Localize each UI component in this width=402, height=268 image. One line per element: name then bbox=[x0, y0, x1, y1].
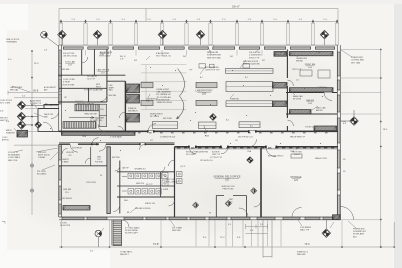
stair lower bbox=[63, 122, 96, 129]
grid marker F bbox=[17, 101, 26, 110]
svg-text:4″ CONC WALK: 4″ CONC WALK bbox=[125, 227, 140, 230]
note jan2 bbox=[95, 162, 103, 164]
room laboratory bbox=[195, 89, 213, 96]
svg-text:LAB OFFICE: LAB OFFICE bbox=[97, 69, 110, 72]
note bollard bbox=[37, 171, 47, 176]
plumbing chase wall bbox=[107, 147, 110, 214]
vest note bbox=[229, 199, 233, 203]
svg-text:WOMEN 113: WOMEN 113 bbox=[135, 169, 146, 171]
dim 3-4 bbox=[22, 96, 25, 98]
note fume hood bbox=[230, 99, 240, 101]
note fin floor bbox=[38, 152, 51, 159]
left edge tick mark bbox=[2, 222, 5, 224]
svg-text:ABOVE: ABOVE bbox=[316, 109, 323, 112]
entry walk line bbox=[25, 109, 38, 132]
svg-text:2′-0: 2′-0 bbox=[296, 80, 299, 82]
leader lines bbox=[12, 46, 356, 234]
right room casework 3 bbox=[290, 110, 312, 114]
dim bc1 bbox=[228, 224, 231, 226]
fixture rects east of wall bbox=[177, 172, 183, 177]
gfo note top1 bbox=[186, 152, 198, 156]
svg-text:CORRIDOR 110: CORRIDOR 110 bbox=[160, 137, 176, 139]
note chase text1 bbox=[109, 85, 115, 92]
svg-text:122: 122 bbox=[230, 201, 233, 203]
note entry bbox=[30, 100, 42, 106]
misc marks bbox=[50, 67, 323, 151]
svg-text:PLANTER: PLANTER bbox=[6, 132, 15, 135]
svg-text:SEE 5/A7: SEE 5/A7 bbox=[172, 229, 182, 232]
lab note left1 bbox=[150, 113, 163, 118]
print room equip 1 bbox=[300, 70, 312, 76]
svg-text:OFFICE: OFFICE bbox=[66, 152, 75, 154]
door tag diamond 3 bbox=[193, 202, 199, 208]
dim small top bbox=[44, 50, 47, 52]
right room casework 1 bbox=[290, 52, 334, 56]
note shower bbox=[163, 189, 169, 191]
dim bc2 bbox=[260, 224, 263, 226]
fume hood hatch 3 bbox=[126, 114, 140, 123]
bay dimension ticks bbox=[60, 19, 338, 23]
dim 6-8 bbox=[237, 237, 241, 239]
svg-text:FLR SINK: FLR SINK bbox=[95, 162, 103, 164]
svg-text:LKR RM: LKR RM bbox=[63, 189, 71, 191]
room soil lab bbox=[65, 61, 75, 67]
lab bench row4 b bbox=[199, 122, 217, 129]
note lab note3 bbox=[243, 61, 260, 66]
note corr2 bbox=[110, 136, 123, 139]
room jan bbox=[97, 156, 101, 162]
svg-text:FILLED PIPE: FILLED PIPE bbox=[60, 225, 71, 227]
lab equip tag2 bbox=[245, 77, 248, 79]
svg-text:W/ SEALANT: W/ SEALANT bbox=[8, 154, 21, 157]
column marker A2 bbox=[93, 30, 102, 39]
svg-text:W/ SPLASH: W/ SPLASH bbox=[353, 233, 364, 236]
note insul glass bbox=[156, 52, 172, 58]
note mech2 bbox=[135, 208, 151, 210]
note dim right bbox=[383, 129, 387, 131]
svg-text:SEE 2/A6: SEE 2/A6 bbox=[109, 94, 116, 97]
note risers bbox=[75, 101, 84, 103]
no-plywd shelf box bbox=[291, 154, 302, 158]
door tag diamond 2 bbox=[251, 188, 257, 194]
svg-text:PREFIN MTL: PREFIN MTL bbox=[351, 57, 364, 59]
svg-text:@ 9′-0″: @ 9′-0″ bbox=[180, 166, 186, 168]
svg-text:W/ 1″ INSUL GL: W/ 1″ INSUL GL bbox=[156, 56, 172, 58]
note lav bbox=[122, 167, 130, 170]
fume hood hatch 2 bbox=[126, 95, 140, 104]
lab equipment rect 2 bbox=[210, 64, 215, 68]
lab note typ bbox=[189, 70, 193, 72]
lab equipment rect 1 bbox=[199, 64, 206, 68]
note shelf bbox=[292, 152, 303, 157]
lab bench row4 c bbox=[239, 122, 260, 128]
north wall face line bbox=[59, 44, 338, 46]
room lab office bbox=[97, 69, 110, 75]
note dim e bbox=[6, 121, 9, 123]
southeast corner hatch bbox=[333, 215, 341, 220]
svg-text:B-4: B-4 bbox=[226, 120, 229, 122]
note mech eq bbox=[124, 200, 128, 202]
window mullion stubs bbox=[86, 50, 314, 56]
svg-text:8′-0: 8′-0 bbox=[343, 123, 346, 125]
svg-text:SEE 6/A3: SEE 6/A3 bbox=[62, 68, 69, 71]
note pipe bollard2 bbox=[60, 223, 71, 227]
south extension lines bbox=[196, 220, 281, 247]
note coping bbox=[351, 57, 365, 64]
corr note e bbox=[150, 140, 153, 142]
note dr 120a bbox=[247, 150, 252, 153]
svg-text:73′-6: 73′-6 bbox=[304, 244, 310, 246]
lab tag row4 bbox=[226, 120, 229, 122]
svg-text:CNTR TOP TYP: CNTR TOP TYP bbox=[205, 70, 220, 72]
note sink2 bbox=[96, 90, 104, 92]
note soil note bbox=[63, 79, 75, 84]
svg-text:LAB BENCH: LAB BENCH bbox=[146, 98, 158, 101]
svg-text:CNTR W/ SINK: CNTR W/ SINK bbox=[62, 85, 75, 87]
note lab west bbox=[128, 108, 138, 112]
exterior stair south bbox=[113, 220, 122, 246]
note exp joint bbox=[8, 152, 21, 162]
svg-text:STL STAIR: STL STAIR bbox=[172, 227, 182, 230]
vestibule walls bbox=[38, 105, 59, 132]
lab bench mid hood 1 bbox=[196, 82, 217, 87]
entry planter hatch bbox=[17, 130, 28, 137]
svg-text:B-1: B-1 bbox=[245, 77, 248, 79]
svg-text:SEE A8: SEE A8 bbox=[296, 60, 303, 63]
room women bbox=[135, 169, 146, 171]
svg-text:3070 HM DR: 3070 HM DR bbox=[72, 148, 83, 150]
note ext1 bbox=[0, 100, 13, 104]
svg-text:TOTAL PAR 1: TOTAL PAR 1 bbox=[120, 251, 133, 254]
svg-text:HANDRAIL SEE 9/A7: HANDRAIL SEE 9/A7 bbox=[77, 103, 94, 106]
note win5 bbox=[262, 60, 265, 62]
room mech bbox=[145, 203, 156, 205]
svg-text:2 SIDES MTL: 2 SIDES MTL bbox=[249, 55, 263, 57]
gfo note b bbox=[180, 166, 186, 168]
svg-text:HB: HB bbox=[127, 212, 129, 214]
right room casework 2 bbox=[290, 88, 334, 92]
room men bbox=[136, 183, 144, 185]
note nw corner bbox=[6, 39, 20, 44]
svg-text:COPING SEE: COPING SEE bbox=[351, 60, 365, 62]
svg-text:MEN 114: MEN 114 bbox=[136, 183, 144, 185]
dim 12-0 bbox=[220, 237, 225, 239]
lab bench row4 a bbox=[153, 122, 178, 129]
room corridor bbox=[160, 137, 176, 139]
lab note left2 bbox=[163, 118, 172, 120]
svg-text:2′-8″: 2′-8″ bbox=[120, 58, 124, 60]
note base cab bbox=[293, 95, 303, 101]
svg-text:W/ CONC FILL: W/ CONC FILL bbox=[90, 120, 103, 122]
svg-text:T/SLAB: T/SLAB bbox=[38, 156, 46, 159]
svg-text:STUD TYP: STUD TYP bbox=[249, 57, 260, 59]
note mop bbox=[96, 84, 102, 88]
svg-text:SEALED CONC: SEALED CONC bbox=[315, 157, 328, 160]
svg-text:B-2: B-2 bbox=[200, 77, 203, 79]
note wall cab bbox=[316, 107, 326, 113]
svg-text:SHWR: SHWR bbox=[163, 189, 169, 191]
svg-text:DOORS TYP: DOORS TYP bbox=[30, 103, 42, 105]
note stud wall bbox=[249, 52, 263, 59]
southeast detail lines bbox=[263, 220, 272, 258]
stor note a bbox=[268, 156, 283, 158]
svg-text:B-5: B-5 bbox=[250, 126, 253, 128]
detail marker lab bbox=[210, 114, 217, 121]
svg-text:W-1: W-1 bbox=[318, 52, 321, 54]
north wall window bars bbox=[63, 47, 334, 49]
note stair rail bbox=[77, 103, 94, 106]
svg-text:W/ 6″ CURB: W/ 6″ CURB bbox=[0, 102, 11, 104]
corridor wall texture bbox=[61, 133, 334, 148]
svg-text:4″ RUB BASE: 4″ RUB BASE bbox=[110, 136, 123, 139]
note downspout bbox=[353, 229, 367, 239]
west wall bbox=[59, 45, 62, 217]
svg-text:SOIL LAB: SOIL LAB bbox=[65, 61, 75, 64]
lkr note c bbox=[80, 206, 87, 208]
note conc walk bbox=[125, 227, 140, 235]
svg-text:W-2: W-2 bbox=[262, 60, 265, 62]
dim 3-0 bbox=[90, 251, 93, 253]
note landing bbox=[100, 109, 104, 111]
svg-text:BOLLARD: BOLLARD bbox=[37, 173, 47, 176]
gfo note top2 bbox=[212, 151, 221, 156]
right note b bbox=[318, 86, 327, 89]
dim 24-0 bbox=[34, 63, 39, 65]
svg-text:SEE 6/A7: SEE 6/A7 bbox=[297, 253, 307, 256]
note stair det bbox=[84, 113, 97, 116]
svg-text:TO COORD ALL: TO COORD ALL bbox=[157, 96, 173, 99]
svg-text:HM DR FRM TYP: HM DR FRM TYP bbox=[290, 137, 306, 139]
room lkr bbox=[63, 189, 71, 194]
stor note b bbox=[315, 157, 328, 160]
svg-text:STORAGE: STORAGE bbox=[290, 176, 302, 179]
gfo note a bbox=[200, 159, 213, 162]
dim 36-8 bbox=[33, 89, 39, 92]
lab equipment rect 3 bbox=[243, 64, 250, 68]
svg-text:PWR POLES: PWR POLES bbox=[223, 188, 234, 190]
east wall bbox=[337, 45, 340, 220]
door swing arcs bbox=[43, 57, 354, 227]
note corr3 bbox=[290, 137, 306, 139]
svg-text:SS SINK: SS SINK bbox=[96, 90, 104, 92]
column marker A4 bbox=[196, 30, 205, 39]
door jambs corridor bbox=[91, 131, 277, 148]
column marker A1 bbox=[58, 30, 67, 39]
note dr 121a bbox=[290, 150, 295, 153]
svg-text:WD BENCH: WD BENCH bbox=[62, 198, 72, 200]
room chem stor bbox=[99, 52, 110, 58]
dim 4-0b bbox=[250, 230, 254, 232]
note janitor bbox=[112, 157, 121, 159]
svg-text:6″ SPLASH: 6″ SPLASH bbox=[318, 86, 327, 89]
grid marker east bbox=[350, 117, 359, 126]
locker bench hatch bbox=[63, 206, 90, 211]
lab bench left hood 1 bbox=[141, 82, 153, 87]
svg-text:DET 7/A6: DET 7/A6 bbox=[351, 61, 361, 64]
svg-text:109: 109 bbox=[235, 140, 238, 142]
svg-text:RECP: RECP bbox=[96, 86, 102, 88]
svg-text:SHELF: SHELF bbox=[294, 154, 301, 156]
corr note f bbox=[235, 140, 238, 142]
note alum wdw bbox=[100, 51, 112, 57]
note stl stair bbox=[172, 227, 182, 233]
note mtl stair bbox=[90, 117, 105, 123]
svg-text:SEE CIVIL: SEE CIVIL bbox=[8, 160, 18, 162]
svg-text:SEE DET 3/A5: SEE DET 3/A5 bbox=[207, 56, 222, 59]
svg-text:W-3: W-3 bbox=[183, 56, 186, 58]
east dimension line bbox=[381, 49, 394, 247]
svg-text:14 R @ 7″: 14 R @ 7″ bbox=[75, 101, 84, 103]
svg-text:4″ BASE: 4″ BASE bbox=[62, 160, 69, 163]
note office door bbox=[72, 148, 83, 150]
room office bbox=[66, 152, 75, 157]
svg-text:3′-4: 3′-4 bbox=[228, 224, 231, 226]
mech note d bbox=[127, 212, 129, 214]
svg-text:4′-8″: 4′-8″ bbox=[0, 111, 4, 113]
dim 74-8 bbox=[153, 243, 159, 246]
fume hood hatch 1 bbox=[126, 84, 140, 93]
svg-text:JAN: JAN bbox=[97, 156, 101, 159]
note lab note2 bbox=[205, 67, 220, 72]
bay dimension labels bbox=[72, 19, 328, 21]
grid marker H bbox=[17, 121, 26, 130]
note gravel stop bbox=[274, 51, 289, 57]
grid marker H2 bbox=[35, 122, 42, 129]
svg-text:STOR 103A: STOR 103A bbox=[99, 55, 110, 58]
svg-text:NEW ALUM: NEW ALUM bbox=[207, 51, 218, 54]
note casework bbox=[296, 57, 308, 63]
note cer tile bbox=[166, 179, 178, 183]
room stor bbox=[305, 127, 316, 129]
restroom fixtures bbox=[122, 173, 168, 195]
room lab rm bbox=[306, 99, 314, 105]
note e text bbox=[343, 123, 346, 125]
lab equip tag1 bbox=[200, 77, 203, 79]
svg-text:56′-0″: 56′-0″ bbox=[232, 4, 240, 8]
lab bench mid hood 2 bbox=[196, 100, 217, 105]
svg-text:SEE MECH DWGS: SEE MECH DWGS bbox=[135, 208, 151, 210]
svg-text:5′-0: 5′-0 bbox=[260, 224, 263, 226]
stair arrow bbox=[69, 117, 94, 119]
casework east of lab 1 bbox=[273, 83, 288, 89]
svg-text:W/ CNTR: W/ CNTR bbox=[293, 99, 302, 101]
note ext2 bbox=[0, 111, 4, 113]
right room casework 5 bbox=[274, 52, 287, 57]
note fd2 bbox=[209, 213, 212, 215]
corr door tag 1 bbox=[82, 135, 87, 138]
note gyp bd bbox=[63, 53, 78, 58]
lab bench right band 1 bbox=[226, 69, 274, 74]
svg-text:W/ 2 SINKS: W/ 2 SINKS bbox=[150, 116, 160, 118]
svg-text:SEE MECH: SEE MECH bbox=[128, 110, 138, 112]
svg-text:W-2: W-2 bbox=[230, 56, 233, 58]
svg-text:OVERHANG: OVERHANG bbox=[6, 41, 17, 44]
svg-text:SEE A2.1: SEE A2.1 bbox=[120, 253, 129, 256]
margin lightening bbox=[0, 0, 110, 268]
datum marker top-left bbox=[41, 32, 48, 39]
right rooms walls bbox=[286, 50, 338, 132]
svg-text:STOR 106: STOR 106 bbox=[305, 127, 316, 129]
svg-text:LAB CASEWRK: LAB CASEWRK bbox=[157, 91, 172, 94]
note lkr bench bbox=[62, 198, 72, 200]
scan shading right band bbox=[394, 0, 402, 268]
lab bench left hood 2 bbox=[141, 100, 153, 105]
grid marker G bbox=[17, 112, 26, 121]
note win4 bbox=[230, 56, 233, 58]
svg-text:28′-0: 28′-0 bbox=[383, 129, 387, 131]
note clg bbox=[238, 137, 253, 139]
svg-text:36′-8: 36′-8 bbox=[33, 89, 39, 92]
column marker A5 bbox=[320, 30, 329, 39]
detail marker corr bbox=[247, 157, 253, 163]
svg-text:E ALUM FRM: E ALUM FRM bbox=[156, 52, 169, 55]
scan shading top strip bbox=[0, 0, 402, 4]
note counter bbox=[62, 85, 75, 87]
room print rm bbox=[305, 64, 316, 69]
note vct bbox=[210, 157, 223, 159]
note cfm bbox=[62, 68, 69, 71]
lab tag row4b bbox=[250, 126, 253, 128]
door tag diamond 1 bbox=[225, 201, 231, 207]
grid marker south-2 bbox=[322, 229, 331, 238]
note win6 bbox=[318, 52, 321, 54]
room storage bbox=[290, 176, 302, 182]
note win1 bbox=[120, 56, 126, 60]
room field office bbox=[213, 176, 241, 182]
svg-text:EXPOSED STRUCT: EXPOSED STRUCT bbox=[268, 156, 283, 158]
note up bbox=[64, 97, 67, 99]
svg-text:VENDOR DWGS: VENDOR DWGS bbox=[157, 102, 173, 104]
west sub dimension bbox=[8, 91, 58, 146]
note win2 bbox=[134, 60, 137, 62]
note apron bbox=[2, 137, 9, 141]
scan shading left edge bbox=[0, 0, 7, 268]
south wall bbox=[59, 217, 340, 220]
east strip note2 bbox=[343, 171, 346, 173]
svg-text:SEE PLMB: SEE PLMB bbox=[163, 118, 172, 120]
dim 8-0 bbox=[203, 237, 207, 239]
svg-text:MOP SINK: MOP SINK bbox=[112, 157, 121, 159]
note lab bench bbox=[146, 98, 158, 104]
svg-text:WALL TYP: WALL TYP bbox=[300, 229, 310, 232]
svg-text:VCT: VCT bbox=[150, 140, 153, 142]
lab floor stripe lines bbox=[141, 64, 187, 109]
overall top dimension line bbox=[59, 9, 338, 45]
note wc bbox=[146, 184, 153, 186]
print room equip 2 bbox=[318, 70, 330, 78]
svg-text:LDG: LDG bbox=[100, 109, 104, 111]
note win3 bbox=[183, 56, 186, 58]
svg-text:SINK LOCATIONS: SINK LOCATIONS bbox=[243, 63, 260, 66]
note elev bbox=[84, 90, 97, 92]
note walk off bbox=[44, 113, 54, 118]
svg-text:2′-8: 2′-8 bbox=[44, 50, 47, 52]
note chase text2 bbox=[109, 94, 116, 97]
dim right room bbox=[296, 80, 299, 82]
dim 4-0 bbox=[8, 59, 12, 61]
note total bbox=[120, 251, 133, 257]
svg-text:16 GA HM FRM: 16 GA HM FRM bbox=[196, 151, 209, 154]
right room casework 4 bbox=[314, 126, 337, 131]
svg-text:SLOPE 1/4/FT: SLOPE 1/4/FT bbox=[125, 233, 139, 235]
lab equipment note blob bbox=[157, 89, 173, 104]
svg-text:BLK: BLK bbox=[353, 236, 357, 238]
svg-text:VCT FLR TYP: VCT FLR TYP bbox=[210, 157, 223, 159]
stair rail line bbox=[111, 220, 113, 246]
interior partition walls bbox=[58, 50, 338, 218]
corr door tag 2 bbox=[205, 136, 210, 138]
note lkr3 bbox=[86, 182, 97, 184]
